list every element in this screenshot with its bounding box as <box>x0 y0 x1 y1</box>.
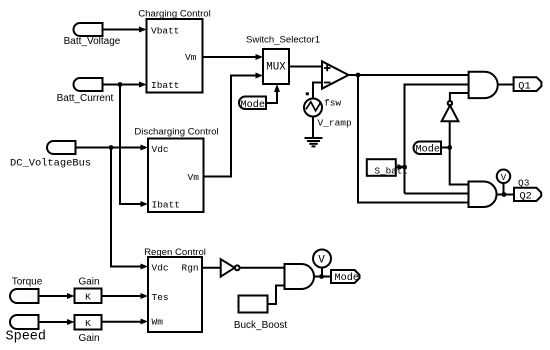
wire S_batt output to riser <box>396 164 405 170</box>
svg-text:Rgn: Rgn <box>182 263 199 274</box>
inport Torque <box>10 277 43 304</box>
wire DC_VoltageBus to Discharging Vdc <box>76 145 149 151</box>
svg-text:V: V <box>318 254 325 266</box>
svg-text:K: K <box>85 291 91 302</box>
node dot V_ramp plus terminal <box>306 92 309 95</box>
NOT gate U2 (pointing up) <box>442 101 459 121</box>
outport Q1 <box>514 77 542 92</box>
wire Batt_Current to Charging Ibatt <box>103 82 147 88</box>
outport Mode <box>331 270 360 284</box>
inport Batt_Voltage <box>64 23 121 47</box>
AND gate bottom middle <box>285 264 315 289</box>
inport Speed <box>6 315 47 345</box>
svg-text:Ibatt: Ibatt <box>151 80 180 91</box>
wire AND output to Mode outport <box>314 276 331 278</box>
wire top AND output to Q1 <box>498 84 514 86</box>
wire Gain2 to Regen Wm <box>102 319 149 325</box>
svg-text:Gain: Gain <box>78 277 99 288</box>
svg-text:Ibatt: Ibatt <box>152 200 181 211</box>
node junction Q2 <box>502 192 507 197</box>
svg-text:Charging Control: Charging Control <box>138 9 211 20</box>
node junction comparator output <box>356 73 361 78</box>
inport Mode (inverter feed) <box>413 142 441 156</box>
svg-text:Vm: Vm <box>188 172 200 183</box>
wire comparator output down to bottom AND gate input 3 <box>358 75 469 203</box>
block Charging Control <box>138 9 211 93</box>
wire Batt_Current down to Discharging Ibatt <box>120 85 148 208</box>
block S_batt <box>367 159 408 176</box>
wire comparator output to top AND gate <box>349 74 469 76</box>
svg-text:Vm: Vm <box>185 52 197 63</box>
block MUX Switch_Selector1 <box>246 35 320 85</box>
wire S_batt riser to top AND gate input 2 <box>405 85 469 194</box>
op-amp comparator U1 <box>322 61 349 88</box>
wire Speed to Gain2 <box>39 319 75 325</box>
wire Mode junction down to bottom AND gate input 1 <box>450 148 469 185</box>
wire NOT output to top AND gate input 3 <box>450 93 469 101</box>
svg-text:Q1: Q1 <box>518 81 530 93</box>
inport Batt_Current <box>57 78 114 104</box>
source V_ramp fsw <box>304 98 352 129</box>
svg-text:Discharging Control: Discharging Control <box>134 127 218 138</box>
wire bottom AND output to Q2 <box>497 194 515 196</box>
wire Mode junction up to NOT gate <box>449 121 451 147</box>
svg-text:Batt_Current: Batt_Current <box>57 93 114 104</box>
svg-text:DC_VoltageBus: DC_VoltageBus <box>10 158 91 170</box>
AND gate top <box>469 72 498 98</box>
block Regen Control <box>144 247 206 332</box>
node junction S_batt riser <box>402 165 407 170</box>
block Gain1 K <box>75 277 102 304</box>
ground <box>305 138 323 146</box>
svg-text:Tes: Tes <box>152 292 169 303</box>
wire comparator minus to V_ramp <box>313 83 322 99</box>
svg-text:MUX: MUX <box>266 62 286 74</box>
svg-text:V_ramp: V_ramp <box>318 118 353 129</box>
node junction Mode output <box>319 274 324 279</box>
wire Buck_Boost to bottom AND gate <box>268 286 285 305</box>
wire Discharging Vm to MUX input 2 <box>204 73 264 177</box>
node junction Batt_Current branch <box>118 82 123 87</box>
svg-text:Switch_Selector1: Switch_Selector1 <box>246 35 320 46</box>
block Discharging Control <box>134 127 218 213</box>
svg-text:Q2: Q2 <box>520 191 532 203</box>
wire Charging Vm to MUX input 1 <box>203 54 264 60</box>
svg-text:Batt_Voltage: Batt_Voltage <box>64 36 121 47</box>
svg-text:Speed: Speed <box>6 330 47 345</box>
wire Mode to MUX bottom <box>266 84 280 103</box>
svg-text:Vbatt: Vbatt <box>151 26 180 37</box>
wire Batt_Voltage to Charging Vbatt <box>103 27 147 33</box>
voltage probe V (bottom) <box>313 250 331 277</box>
wire Regen Rgn to NOT gate <box>202 267 221 269</box>
svg-text:fsw: fsw <box>324 98 341 109</box>
svg-text:Mode: Mode <box>416 143 440 155</box>
NOT gate U3 (pointing right) <box>221 259 240 276</box>
svg-text:Wm: Wm <box>152 317 164 328</box>
svg-text:Regen Control: Regen Control <box>144 247 206 258</box>
wire V_ramp to ground <box>312 117 314 139</box>
wire Torque to Gain1 <box>39 293 75 299</box>
svg-text:Mode: Mode <box>335 272 359 284</box>
svg-text:Buck_Boost: Buck_Boost <box>234 320 288 331</box>
outport Q2 <box>514 188 541 203</box>
inport DC_VoltageBus <box>10 141 91 170</box>
inport Mode (MUX select) <box>239 97 266 111</box>
svg-text:Vdc: Vdc <box>152 263 169 274</box>
svg-text:Vdc: Vdc <box>152 144 169 155</box>
node junction Mode line <box>447 145 452 150</box>
svg-text:Gain: Gain <box>78 333 99 344</box>
block Gain2 K <box>75 315 102 344</box>
wire S_batt riser down to bottom AND gate input 2 <box>405 193 469 195</box>
voltage probe V (Q3) <box>497 170 530 195</box>
block Buck_Boost <box>234 296 288 331</box>
wire Mode to inverter junction <box>441 147 450 149</box>
svg-text:Mode: Mode <box>241 99 265 111</box>
node junction DC_VoltageBus branch <box>109 145 114 150</box>
svg-text:Torque: Torque <box>12 277 43 288</box>
svg-text:K: K <box>85 318 91 329</box>
wire DC_VoltageBus down to Regen Vdc <box>111 148 148 270</box>
wire NOT output to bottom AND gate <box>240 267 285 269</box>
AND gate bottom right <box>469 182 497 208</box>
wire MUX output to comparator plus <box>289 66 322 68</box>
svg-text:V: V <box>501 173 507 183</box>
wire Gain1 to Regen Tes <box>102 293 149 299</box>
